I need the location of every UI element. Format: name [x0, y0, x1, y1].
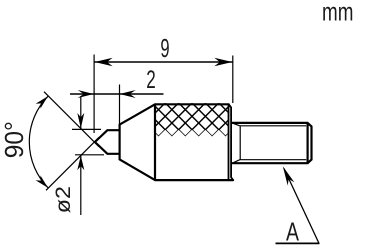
thread run-out diagonals [234, 124, 240, 126]
extension line right of 9 (body end) [232, 56, 234, 104]
o2 dim line upper segment [80, 97, 82, 130]
svg-text:mm: mm [322, 0, 353, 27]
label A leader line [284, 169, 319, 244]
o2 upper arrowhead pointing down [77, 113, 84, 128]
o2 dim line lower segment [80, 155, 82, 215]
full-thread boundary line [239, 126, 241, 160]
svg-text:2: 2 [146, 66, 156, 94]
dimension line 2 with outside tails [70, 93, 164, 95]
angle dimension arc [29, 96, 48, 188]
extension line shoulder (2 right) [119, 85, 121, 128]
svg-text:ø2: ø2 [52, 186, 75, 213]
threaded stud outline [232, 123, 312, 163]
thread root lines (thin) [234, 124, 307, 163]
arrowhead 9 left [95, 58, 113, 66]
angle extension line lower-left (45deg) [46, 137, 99, 190]
svg-text:9: 9 [160, 33, 169, 63]
extension line left of 9/2 (apex) [93, 55, 95, 134]
angle extension line upper-left (45deg) [44, 92, 99, 147]
arc arrowhead upper (points up-right) [36, 96, 48, 108]
svg-text:A: A [286, 217, 299, 246]
svg-text:90°: 90° [0, 121, 29, 158]
o2 top extension line [72, 128, 101, 130]
label A arrowhead [283, 166, 295, 185]
arrowhead 2 pointing right at apex ext [78, 90, 94, 98]
knurl cross-hatch [125, 102, 260, 138]
arrowhead 9 right [214, 58, 232, 66]
arc arrowhead lower (points down-right) [36, 175, 48, 187]
body right chamfer edges [229, 104, 234, 180]
arrowhead 2 pointing left at shoulder ext [120, 90, 136, 98]
o2 lower arrowhead pointing up [77, 156, 84, 171]
o2 bottom extension line [75, 154, 104, 156]
dimension line 9 [94, 61, 233, 63]
label A underline [276, 242, 320, 244]
part outline: cone tip, cylinder, flare, body [95, 104, 233, 180]
